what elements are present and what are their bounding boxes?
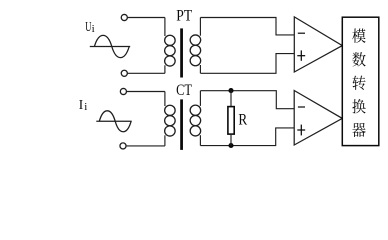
op-amp U2	[294, 91, 342, 146]
svg-text:PT: PT	[176, 8, 192, 25]
svg-text:I: I	[79, 97, 83, 112]
junction node top of R	[228, 88, 233, 93]
op-amp U1 plus sign	[297, 55, 305, 57]
transformer CT secondary winding	[199, 91, 201, 106]
op-amp U2 minus sign	[298, 106, 305, 108]
ADC label char 器	[352, 123, 365, 137]
svg-text:CT: CT	[176, 82, 192, 99]
op-amp U1	[294, 17, 342, 72]
svg-text:U: U	[85, 19, 91, 34]
source Ui sine wave	[90, 46, 130, 48]
wire PT secondary bottom to op-amp U1 plus	[200, 54, 294, 74]
wire PT secondary top to op-amp U1 minus	[200, 18, 294, 35]
wire CT secondary bottom to op-amp U2 plus	[200, 128, 294, 146]
wire terminal to CT primary bottom	[126, 145, 165, 147]
op-amp U1 minus sign	[298, 32, 305, 34]
svg-text:R: R	[238, 112, 247, 129]
terminal top-left of PT primary	[121, 14, 127, 20]
terminal bottom-left of CT primary	[120, 143, 126, 149]
transformer PT primary winding	[164, 18, 166, 37]
ADC label char 数	[352, 52, 365, 66]
source Ii sine wave	[96, 120, 131, 122]
wire terminal to PT primary top	[128, 17, 165, 19]
wire terminal to PT primary bottom	[128, 72, 165, 74]
svg-text:i: i	[84, 101, 87, 113]
resistor R lead bottom	[230, 135, 232, 146]
transformer PT secondary winding	[199, 18, 201, 36]
svg-text:i: i	[92, 23, 95, 35]
wire CT secondary top to op-amp U2 minus	[200, 91, 294, 109]
op-amp U2 plus sign	[297, 129, 305, 131]
terminal top-left of CT primary	[120, 88, 126, 94]
ADC block 模数转换器	[342, 17, 379, 145]
ADC label char 转	[352, 76, 365, 90]
wire terminal to CT primary top	[127, 91, 165, 93]
junction node bottom of R	[228, 143, 233, 148]
terminal bottom-left of PT primary	[121, 70, 127, 76]
transformer CT primary winding	[164, 92, 166, 107]
transformer PT core	[180, 28, 183, 77]
transformer CT core	[180, 99, 183, 149]
resistor R lead top	[230, 91, 232, 107]
resistor R body	[228, 107, 234, 135]
ADC label char 换	[352, 99, 365, 113]
ADC label char 模	[352, 28, 366, 42]
